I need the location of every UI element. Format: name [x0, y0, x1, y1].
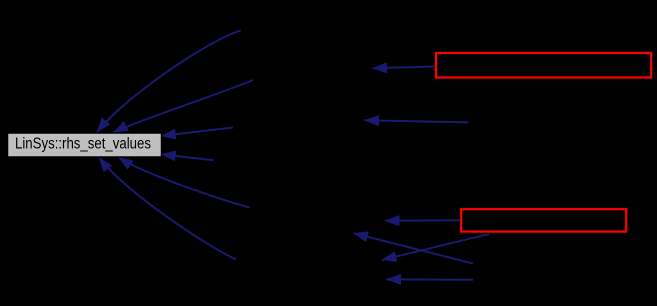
edge E4: short line into node right edge (lower) — [161, 154, 213, 160]
edge Ea: horizontal arrow from bottom red box — [385, 219, 460, 221]
edge E1: top long curve into node top — [97, 30, 241, 132]
edge E6: long bottom curve into node bottom — [99, 158, 236, 260]
edge E3: short line into node right edge (upper) — [161, 128, 233, 136]
edge Ed: bottom horizontal arrow — [387, 278, 474, 280]
edge Ec: diagonal arrow from bottom red box going down-left — [382, 234, 490, 260]
svg-text:LinSys::rhs_set_values: LinSys::rhs_set_values — [15, 136, 151, 153]
node LinSys::rhs_set_values (gray box) — [8, 133, 162, 157]
edge EA: arrow from top red box to hidden middle node — [373, 67, 436, 69]
node R1: top red-outlined box — [436, 53, 651, 78]
edge E2: second curve into node top — [114, 80, 254, 133]
edge EB: arrow from hidden right node to hidden middle node — [365, 120, 469, 122]
edge Eb: diagonal arrow crossing up-left — [354, 233, 474, 263]
node R2: bottom red-outlined box — [461, 209, 626, 231]
edge E5: curve into node bottom (shallow) — [119, 157, 250, 207]
